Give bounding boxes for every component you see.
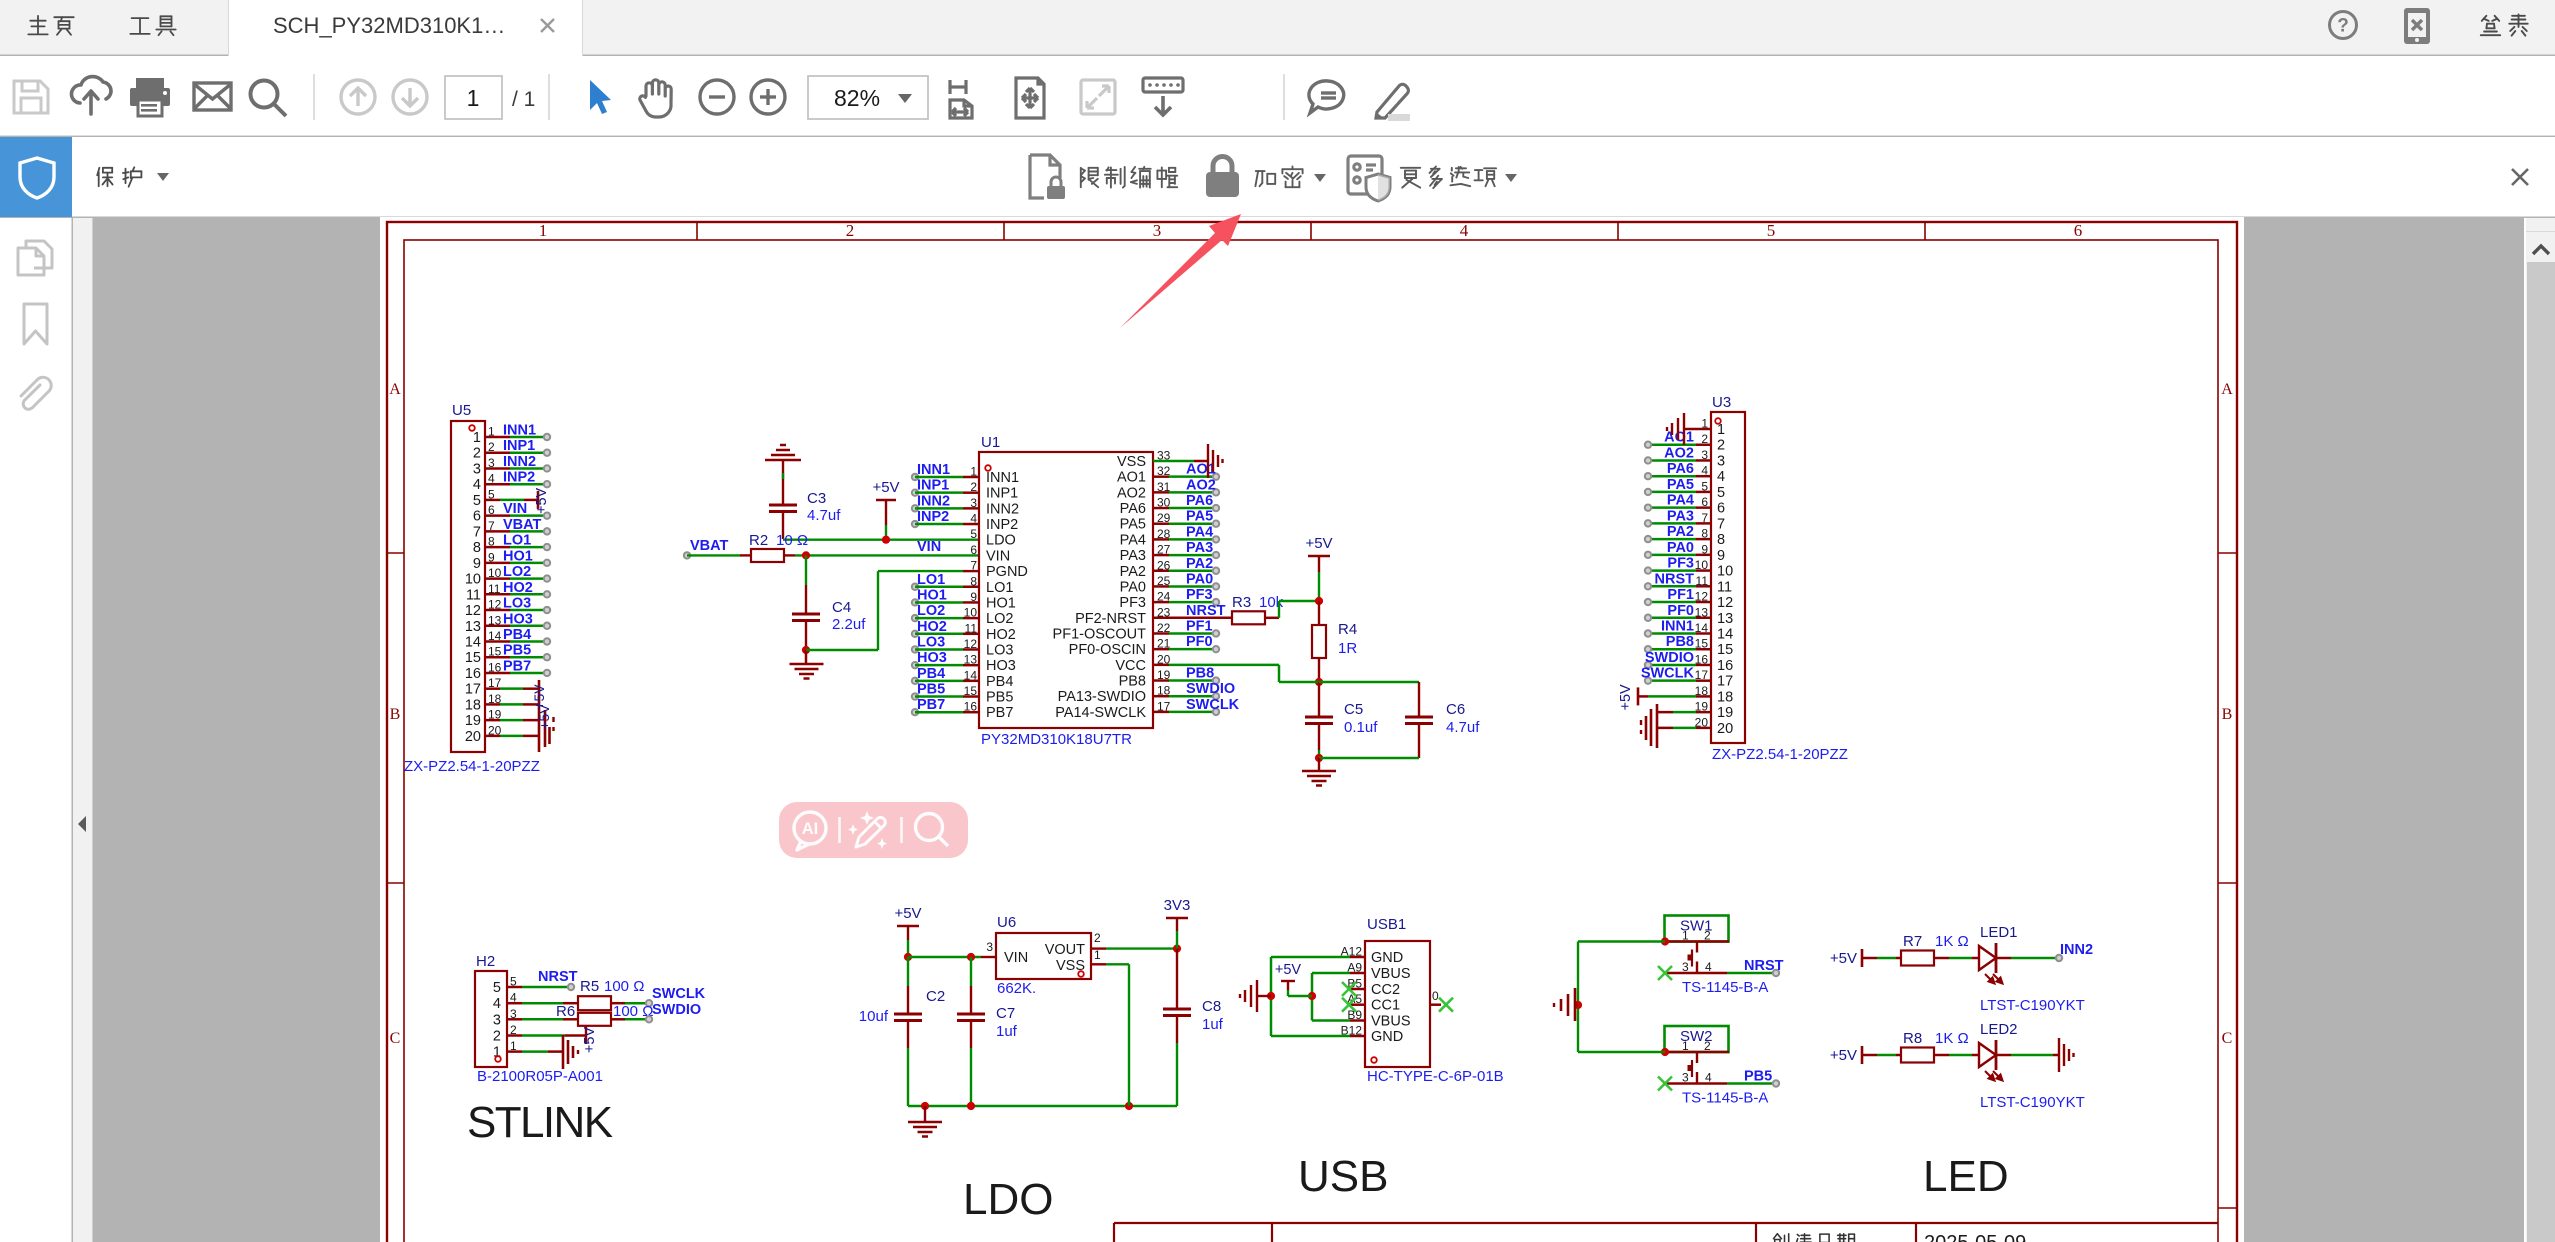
svg-text:+5V: +5V (894, 905, 921, 922)
svg-text:INP2: INP2 (986, 517, 1018, 533)
svg-text:SWCLK: SWCLK (1641, 666, 1695, 682)
svg-text:HC-TYPE-C-6P-01B: HC-TYPE-C-6P-01B (1367, 1068, 1504, 1085)
svg-text:VIN: VIN (986, 548, 1010, 564)
svg-text:LDO: LDO (963, 1175, 1053, 1224)
svg-text:1K Ω: 1K Ω (1935, 1030, 1969, 1047)
svg-text:5: 5 (970, 527, 977, 541)
svg-text:C: C (2222, 1030, 2233, 1047)
svg-text:PA2: PA2 (1120, 564, 1146, 580)
svg-text:B-2100R05P-A001: B-2100R05P-A001 (477, 1068, 603, 1085)
svg-text:3: 3 (1682, 1071, 1689, 1085)
svg-text:AO2: AO2 (1664, 445, 1694, 461)
svg-text:11: 11 (1717, 579, 1732, 595)
svg-text:+5V: +5V (1305, 535, 1332, 552)
svg-text:PF3: PF3 (1119, 595, 1146, 611)
svg-text:/ 1: / 1 (512, 88, 535, 111)
svg-text:INN1: INN1 (917, 462, 950, 478)
svg-text:100 Ω: 100 Ω (604, 978, 644, 995)
svg-text:INN1: INN1 (986, 470, 1019, 486)
svg-text:PF3: PF3 (1186, 587, 1213, 603)
svg-text:HO3: HO3 (986, 658, 1016, 674)
svg-text:CC2: CC2 (1371, 982, 1400, 998)
svg-text:PB5: PB5 (986, 690, 1013, 706)
svg-text:PA2: PA2 (1186, 556, 1213, 572)
svg-text:R3: R3 (1232, 594, 1251, 611)
svg-text:+5V: +5V (534, 487, 550, 514)
svg-text:R6: R6 (556, 1003, 575, 1020)
svg-text:GND: GND (1371, 950, 1403, 966)
svg-text:PA4: PA4 (1186, 524, 1213, 540)
svg-text:8: 8 (473, 540, 481, 556)
svg-text:9: 9 (473, 556, 481, 572)
svg-text:C5: C5 (1344, 701, 1363, 718)
svg-text:19: 19 (1717, 705, 1733, 721)
svg-text:TS-1145-B-A: TS-1145-B-A (1682, 1090, 1768, 1107)
svg-text:+5V: +5V (1830, 950, 1857, 967)
svg-text:AO1: AO1 (1117, 470, 1146, 486)
svg-text:+5V: +5V (1830, 1047, 1857, 1064)
svg-text:PA4: PA4 (1120, 532, 1146, 548)
svg-text:4: 4 (1717, 469, 1725, 485)
svg-text:4.7uf: 4.7uf (807, 507, 841, 524)
svg-text:2: 2 (493, 1029, 501, 1045)
svg-text:4: 4 (1460, 221, 1469, 240)
svg-text:U1: U1 (981, 434, 1000, 451)
svg-text:7: 7 (970, 559, 977, 573)
svg-text:R5: R5 (580, 978, 599, 995)
svg-text:PA4: PA4 (1667, 493, 1694, 509)
svg-text:SWCLK: SWCLK (652, 986, 706, 1002)
svg-text:1uf: 1uf (996, 1023, 1018, 1040)
svg-text:1K Ω: 1K Ω (1935, 933, 1969, 950)
svg-text:662K.: 662K. (997, 980, 1036, 997)
svg-text:+5V: +5V (1275, 962, 1302, 978)
svg-text:PB4: PB4 (986, 674, 1013, 690)
svg-text:GND: GND (1371, 1029, 1403, 1045)
svg-text:VBUS: VBUS (1371, 966, 1411, 982)
svg-text:1R: 1R (1338, 640, 1357, 657)
svg-text:PA6: PA6 (1186, 493, 1213, 509)
svg-text:TS-1145-B-A: TS-1145-B-A (1682, 979, 1768, 996)
svg-text:0.1uf: 0.1uf (1344, 719, 1378, 736)
svg-text:U3: U3 (1712, 394, 1731, 411)
svg-text:A: A (389, 381, 401, 398)
svg-text:R2: R2 (749, 532, 768, 549)
svg-text:PA6: PA6 (1667, 461, 1694, 477)
svg-text:12: 12 (465, 603, 481, 619)
svg-text:1: 1 (467, 85, 480, 111)
svg-text:3: 3 (473, 461, 481, 477)
svg-text:3: 3 (986, 940, 993, 954)
svg-text:INN2: INN2 (917, 493, 950, 509)
svg-text:PF0: PF0 (1667, 603, 1694, 619)
svg-text:C3: C3 (807, 490, 826, 507)
svg-text:+5V: +5V (536, 704, 552, 730)
svg-text:SWDIO: SWDIO (1186, 681, 1235, 697)
svg-text:INN1: INN1 (1661, 618, 1694, 634)
svg-text:B: B (2222, 706, 2233, 723)
svg-text:10 Ω: 10 Ω (776, 532, 808, 549)
svg-text:VBUS: VBUS (1371, 1014, 1411, 1030)
svg-text:6: 6 (970, 543, 977, 557)
svg-text:13: 13 (1717, 611, 1733, 627)
svg-text:PB4: PB4 (917, 666, 945, 682)
svg-text:SWDIO: SWDIO (652, 1002, 701, 1018)
svg-text:PA3: PA3 (1667, 508, 1694, 524)
svg-text:PA6: PA6 (1120, 501, 1146, 517)
svg-text:12: 12 (1717, 595, 1733, 611)
svg-text:LO2: LO2 (986, 611, 1013, 627)
svg-text:2: 2 (1717, 438, 1725, 454)
svg-text:VIN: VIN (1004, 950, 1028, 966)
svg-text:1: 1 (539, 221, 548, 240)
svg-text:2025-05-09: 2025-05-09 (1924, 1232, 2026, 1242)
svg-text:1: 1 (473, 430, 481, 446)
svg-text:USB: USB (1298, 1152, 1388, 1201)
svg-text:PA13-SWDIO: PA13-SWDIO (1058, 689, 1146, 705)
svg-text:AO2: AO2 (1186, 477, 1216, 493)
svg-text:1: 1 (1094, 948, 1101, 962)
svg-text:13: 13 (465, 619, 481, 635)
svg-text:PB7: PB7 (986, 705, 1013, 721)
svg-text:H2: H2 (476, 953, 495, 970)
svg-text:LO1: LO1 (986, 580, 1013, 596)
svg-text:82%: 82% (834, 85, 880, 111)
svg-text:7: 7 (473, 524, 481, 540)
svg-text:AO1: AO1 (1186, 462, 1216, 478)
svg-text:LTST-C190YKT: LTST-C190YKT (1980, 997, 2085, 1014)
svg-text:USB1: USB1 (1367, 916, 1406, 933)
svg-text:3V3: 3V3 (1164, 897, 1191, 914)
svg-text:CC1: CC1 (1371, 998, 1400, 1014)
svg-text:PB8: PB8 (1119, 674, 1146, 690)
svg-text:3: 3 (1153, 221, 1162, 240)
svg-text:HO2: HO2 (917, 619, 947, 635)
svg-text:B: B (390, 706, 401, 723)
svg-text:R7: R7 (1903, 933, 1922, 950)
svg-text:VOUT: VOUT (1045, 942, 1085, 958)
svg-text:2: 2 (473, 446, 481, 462)
svg-text:U6: U6 (997, 914, 1016, 931)
svg-text:U5: U5 (452, 402, 471, 419)
svg-text:1: 1 (1717, 422, 1725, 438)
svg-text:R8: R8 (1903, 1030, 1922, 1047)
svg-text:PB5: PB5 (917, 682, 945, 698)
svg-text:PB7: PB7 (917, 697, 945, 713)
svg-text:14: 14 (1717, 626, 1733, 642)
svg-text:SWDIO: SWDIO (1645, 650, 1694, 666)
svg-text:+5V: +5V (1618, 684, 1634, 711)
svg-text:2: 2 (1094, 931, 1101, 945)
svg-text:INP1: INP1 (917, 478, 949, 494)
svg-text:LTST-C190YKT: LTST-C190YKT (1980, 1094, 2085, 1111)
svg-text:3: 3 (493, 1012, 501, 1028)
svg-text:VCC: VCC (1115, 658, 1146, 674)
svg-text:10: 10 (465, 572, 481, 588)
svg-text:6: 6 (2074, 221, 2083, 240)
svg-text:PA2: PA2 (1667, 524, 1694, 540)
svg-text:INN2: INN2 (2060, 942, 2093, 958)
svg-text:PF3: PF3 (1667, 556, 1694, 572)
svg-text:5: 5 (1717, 485, 1725, 501)
svg-text:VSS: VSS (1117, 454, 1146, 470)
svg-text:PF1: PF1 (1186, 618, 1213, 634)
svg-text:4: 4 (1705, 960, 1712, 974)
svg-text:HO1: HO1 (986, 595, 1016, 611)
svg-text:+5V: +5V (582, 1027, 598, 1054)
svg-text:A: A (2221, 381, 2233, 398)
svg-text:3: 3 (1717, 453, 1725, 469)
svg-text:0: 0 (1432, 989, 1439, 1003)
svg-text:PA5: PA5 (1120, 517, 1146, 533)
svg-text:C4: C4 (832, 599, 851, 616)
svg-text:20: 20 (1717, 721, 1733, 737)
svg-text:2.2uf: 2.2uf (832, 616, 866, 633)
svg-text:C2: C2 (926, 988, 945, 1005)
svg-text:17: 17 (1717, 674, 1733, 690)
svg-text:19: 19 (465, 713, 481, 729)
svg-text:PF1: PF1 (1667, 587, 1694, 603)
svg-text:PB8: PB8 (1666, 634, 1694, 650)
svg-text:+5V: +5V (872, 479, 899, 496)
svg-text:AO2: AO2 (1117, 485, 1146, 501)
svg-text:INP1: INP1 (986, 486, 1018, 502)
svg-text:17: 17 (465, 682, 481, 698)
svg-text:PA3: PA3 (1120, 548, 1146, 564)
svg-text:2: 2 (846, 221, 855, 240)
svg-text:NRST: NRST (1655, 571, 1695, 587)
svg-text:LED2: LED2 (1980, 1021, 2018, 1038)
svg-text:PF0: PF0 (1186, 634, 1213, 650)
svg-text:PY32MD310K18U7TR: PY32MD310K18U7TR (981, 731, 1132, 748)
svg-text:7: 7 (1717, 516, 1725, 532)
svg-text:SWCLK: SWCLK (1186, 697, 1240, 713)
svg-text:8: 8 (1717, 532, 1725, 548)
svg-text:PF2-NRST: PF2-NRST (1075, 611, 1146, 627)
svg-text:LED1: LED1 (1980, 924, 2018, 941)
svg-text:HO2: HO2 (986, 627, 1016, 643)
svg-text:PA5: PA5 (1667, 477, 1694, 493)
svg-text:HO1: HO1 (917, 587, 947, 603)
svg-text:NRST: NRST (1744, 958, 1784, 974)
svg-text:PA5: PA5 (1186, 509, 1213, 525)
svg-text:PA0: PA0 (1667, 540, 1694, 556)
svg-text:4.7uf: 4.7uf (1446, 719, 1480, 736)
svg-text:AI: AI (802, 820, 819, 838)
svg-text:C7: C7 (996, 1005, 1015, 1022)
svg-text:5: 5 (493, 980, 501, 996)
svg-text:14: 14 (465, 634, 481, 650)
svg-text:4: 4 (473, 477, 481, 493)
svg-text:PA3: PA3 (1186, 540, 1213, 556)
svg-text:6: 6 (473, 509, 481, 525)
svg-text:R4: R4 (1338, 621, 1357, 638)
svg-text:HO3: HO3 (917, 650, 947, 666)
svg-text:NRST: NRST (1186, 603, 1226, 619)
svg-text:VBAT: VBAT (690, 538, 729, 554)
svg-text:4: 4 (1705, 1071, 1712, 1085)
svg-text:16: 16 (465, 666, 481, 682)
svg-text:4: 4 (493, 996, 501, 1012)
svg-text:LO1: LO1 (917, 572, 945, 588)
svg-text:VIN: VIN (917, 539, 941, 555)
svg-text:ZX-PZ2.54-1-20PZZ: ZX-PZ2.54-1-20PZZ (404, 758, 540, 775)
svg-text:LDO: LDO (986, 533, 1016, 549)
svg-text:10uf: 10uf (859, 1008, 889, 1025)
svg-text:5: 5 (1767, 221, 1776, 240)
svg-text:PF0-OSCIN: PF0-OSCIN (1069, 642, 1146, 658)
svg-text:PB5: PB5 (1744, 1069, 1772, 1085)
svg-text:LO3: LO3 (986, 642, 1013, 658)
svg-text:9: 9 (1717, 548, 1725, 564)
svg-text:PB8: PB8 (1186, 666, 1214, 682)
svg-text:INP2: INP2 (917, 509, 949, 525)
svg-text:C8: C8 (1202, 998, 1221, 1015)
svg-text:3: 3 (1682, 960, 1689, 974)
svg-text:10: 10 (1717, 564, 1733, 580)
svg-text:PA0: PA0 (1186, 571, 1213, 587)
svg-text:6: 6 (1717, 501, 1725, 517)
svg-text:16: 16 (1717, 658, 1733, 674)
svg-text:PGND: PGND (986, 564, 1028, 580)
svg-text:LO2: LO2 (917, 603, 945, 619)
svg-text:15: 15 (1717, 642, 1733, 658)
svg-text:18: 18 (1717, 689, 1733, 705)
svg-text:PF1-OSCOUT: PF1-OSCOUT (1053, 626, 1147, 642)
svg-text:STLINK: STLINK (467, 1098, 613, 1147)
svg-text:ZX-PZ2.54-1-20PZZ: ZX-PZ2.54-1-20PZZ (1712, 746, 1848, 763)
svg-text:20: 20 (465, 729, 481, 745)
svg-text:LED: LED (1923, 1152, 2009, 1201)
svg-text:18: 18 (465, 697, 481, 713)
svg-text:?: ? (2337, 16, 2349, 37)
svg-text:INN2: INN2 (986, 501, 1019, 517)
svg-text:PA0: PA0 (1120, 579, 1146, 595)
svg-text:5: 5 (473, 493, 481, 509)
svg-text:11: 11 (466, 587, 481, 603)
svg-text:LO3: LO3 (917, 634, 945, 650)
svg-text:1uf: 1uf (1202, 1016, 1224, 1033)
svg-text:PA14-SWCLK: PA14-SWCLK (1055, 705, 1146, 721)
svg-text:15: 15 (465, 650, 481, 666)
svg-text:C6: C6 (1446, 701, 1465, 718)
svg-text:C: C (390, 1030, 401, 1047)
svg-text:NRST: NRST (538, 969, 578, 985)
